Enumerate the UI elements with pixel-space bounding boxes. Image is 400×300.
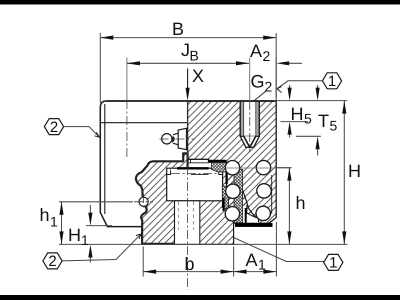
extension line h1 top (59, 201, 133, 203)
top border bar (0, 0, 400, 5)
leader balloon 1 top (277, 81, 323, 89)
svg-text:T: T (318, 111, 329, 131)
balloon 1 hexagon top (322, 73, 341, 89)
svg-text:h: h (40, 205, 50, 225)
retainer mesh strip above top ball (212, 163, 227, 173)
arrow JB right (236, 61, 249, 65)
white bolt hole column under head (175, 201, 200, 245)
rail right half section hatched (188, 168, 259, 244)
svg-text:A: A (246, 250, 258, 270)
svg-text:H: H (68, 225, 81, 245)
carriage bottom face thick bar (235, 223, 273, 227)
arrow shaft H5 bottom (289, 132, 291, 138)
screw hole crosshair horizontal (134, 201, 153, 203)
svg-text:G: G (251, 72, 265, 92)
leader G2 (253, 91, 267, 102)
svg-text:2: 2 (263, 48, 271, 64)
level line T5 (296, 135, 321, 137)
ball bottom left row (225, 207, 239, 221)
arrow A1 right (263, 270, 276, 274)
white pocket under ball rows (243, 206, 259, 223)
thick edge left of groove lip (245, 208, 247, 223)
svg-text:1: 1 (328, 73, 336, 90)
thick black details (177, 161, 273, 227)
retainer strip lines left of raceway (188, 160, 209, 163)
svg-text:H: H (348, 161, 361, 181)
level line H5 (280, 121, 308, 123)
dimension tail A2 (283, 62, 302, 64)
arrow shaft T5 bottom (317, 147, 319, 156)
grease nipple neck (173, 133, 178, 145)
svg-text:2: 2 (265, 79, 273, 95)
centerline grease nipple axis (160, 138, 195, 140)
balloon 1 hexagon bottom (324, 254, 343, 270)
arrow B right (263, 36, 276, 40)
head chamfer corner marks (167, 170, 223, 175)
svg-text:1: 1 (329, 255, 337, 272)
dimension line H (343, 101, 345, 245)
arrow shaft H1 bottom (89, 256, 91, 263)
arrow b right (221, 270, 234, 274)
arrow A1 left (234, 270, 247, 274)
svg-text:1: 1 (50, 214, 58, 230)
svg-text:5: 5 (330, 118, 338, 134)
centerline main vertical (187, 102, 189, 290)
mesh (polymer retainer) patches (212, 163, 243, 223)
arrow shaft H1 top (89, 205, 91, 214)
thick retainer line (177, 167, 209, 169)
extension line h top (276, 167, 292, 169)
balloon 2 hexagon left (44, 119, 63, 135)
arrow H1 top outside (88, 213, 92, 226)
balloon 2 hexagon bottom (43, 253, 62, 269)
dimension line B (100, 37, 276, 39)
baseline (rail bottom) (59, 243, 347, 245)
filled dimension arrowheads (59, 36, 346, 274)
dimension line h1 (61, 202, 63, 245)
arrow shaft T5 top (317, 85, 319, 90)
leader balloon 2 bottom (62, 234, 141, 261)
thick raceway insert line (208, 160, 226, 163)
extension line top surface (276, 100, 347, 102)
svg-text:2: 2 (50, 119, 58, 136)
hole bottom + drill cone (240, 135, 259, 137)
end plate top edge (100, 122, 187, 124)
X lube-port arrow shaft (187, 69, 189, 92)
rail groove lip outline (247, 205, 259, 222)
extension line JB right / A2 left (249, 58, 251, 102)
G2 threaded hole thread walls (240, 102, 243, 137)
arrow shaft H5 top (289, 85, 291, 90)
dimension line h (288, 168, 290, 245)
carriage top surface (107, 100, 277, 102)
arrow H bottom (342, 231, 346, 244)
dimension line b and A1 (143, 271, 276, 273)
leader balloon 2 left (64, 127, 100, 138)
centerline right G2 hole (249, 101, 251, 152)
raceway thick edge upper (226, 173, 228, 185)
ball top left row (225, 161, 239, 175)
end plate screw hole (139, 197, 148, 206)
arrow JB left (127, 61, 140, 65)
arrow h1 bottom (59, 231, 63, 244)
bottom border bar (0, 295, 400, 300)
extension line JB left (126, 58, 128, 101)
arrow B left (100, 36, 113, 40)
extension line A1 right (275, 222, 277, 277)
carriage leg inner face line (271, 175, 273, 214)
carriage left face outline (100, 101, 142, 227)
screw hole crosshair vertical (143, 194, 145, 210)
svg-text:1: 1 (258, 257, 266, 273)
svg-text:h: h (296, 193, 306, 213)
arrow H top (342, 101, 346, 114)
arrow h bottom (287, 231, 291, 244)
arrow H5 bottom (288, 122, 292, 135)
arrow H1 bottom outside (88, 245, 92, 258)
arrow H5 top (288, 88, 292, 101)
centerline rail head chamfer (171, 173, 218, 175)
svg-text:5: 5 (304, 111, 312, 127)
arrow T5 top (316, 88, 320, 101)
retainer thick edge left of lower ball (223, 198, 225, 212)
grease nipple base lines (187, 128, 188, 149)
ball bottom right row (256, 206, 270, 220)
grease nipple hex body (178, 128, 186, 149)
carriage sectioned body (right half) with G2 hole (188, 101, 277, 223)
arrow h top (287, 168, 291, 181)
hex balloons (43, 73, 343, 271)
svg-text:B: B (172, 19, 184, 39)
dimension line JB (127, 62, 249, 64)
arrow X down (186, 88, 190, 101)
extension line b right / A1 left (233, 247, 235, 277)
extension line B left (99, 33, 101, 103)
extension line A2 right (275, 58, 277, 101)
svg-text:1: 1 (81, 232, 89, 248)
extension line H1 top (86, 225, 112, 227)
svg-text:H: H (291, 104, 304, 124)
grease nipple ball head (162, 134, 172, 144)
carriage left face inner line (104, 104, 106, 214)
white window: rail head end face (167, 168, 223, 201)
ball middle left row (226, 184, 240, 198)
svg-text:X: X (192, 66, 204, 86)
svg-text:2: 2 (48, 253, 56, 270)
leader balloon 1 bottom (233, 237, 327, 262)
balls (225, 160, 271, 221)
rail head top reference line through balls (223, 167, 292, 169)
svg-text:A: A (250, 41, 262, 61)
balloon leaders (62, 81, 326, 262)
ball middle right row (257, 184, 271, 198)
retainer mesh snake right of left ball column (234, 169, 243, 223)
arrow h1 top (59, 202, 63, 215)
arrow A2 outside right (276, 61, 289, 65)
svg-text:B: B (190, 48, 199, 64)
retainer mesh strip left of ball column (222, 186, 228, 210)
centerline left G2 hole (126, 100, 128, 158)
ball top right row (256, 160, 270, 174)
extension line b left (142, 247, 144, 277)
extension line B right (275, 33, 277, 98)
arrow b left (143, 270, 156, 274)
hidden thread lines in bolt hole (178, 202, 193, 231)
arrow T5 bottom (316, 136, 320, 149)
svg-text:b: b (185, 254, 195, 274)
left half: end plate seal zone hatched (136, 153, 223, 244)
